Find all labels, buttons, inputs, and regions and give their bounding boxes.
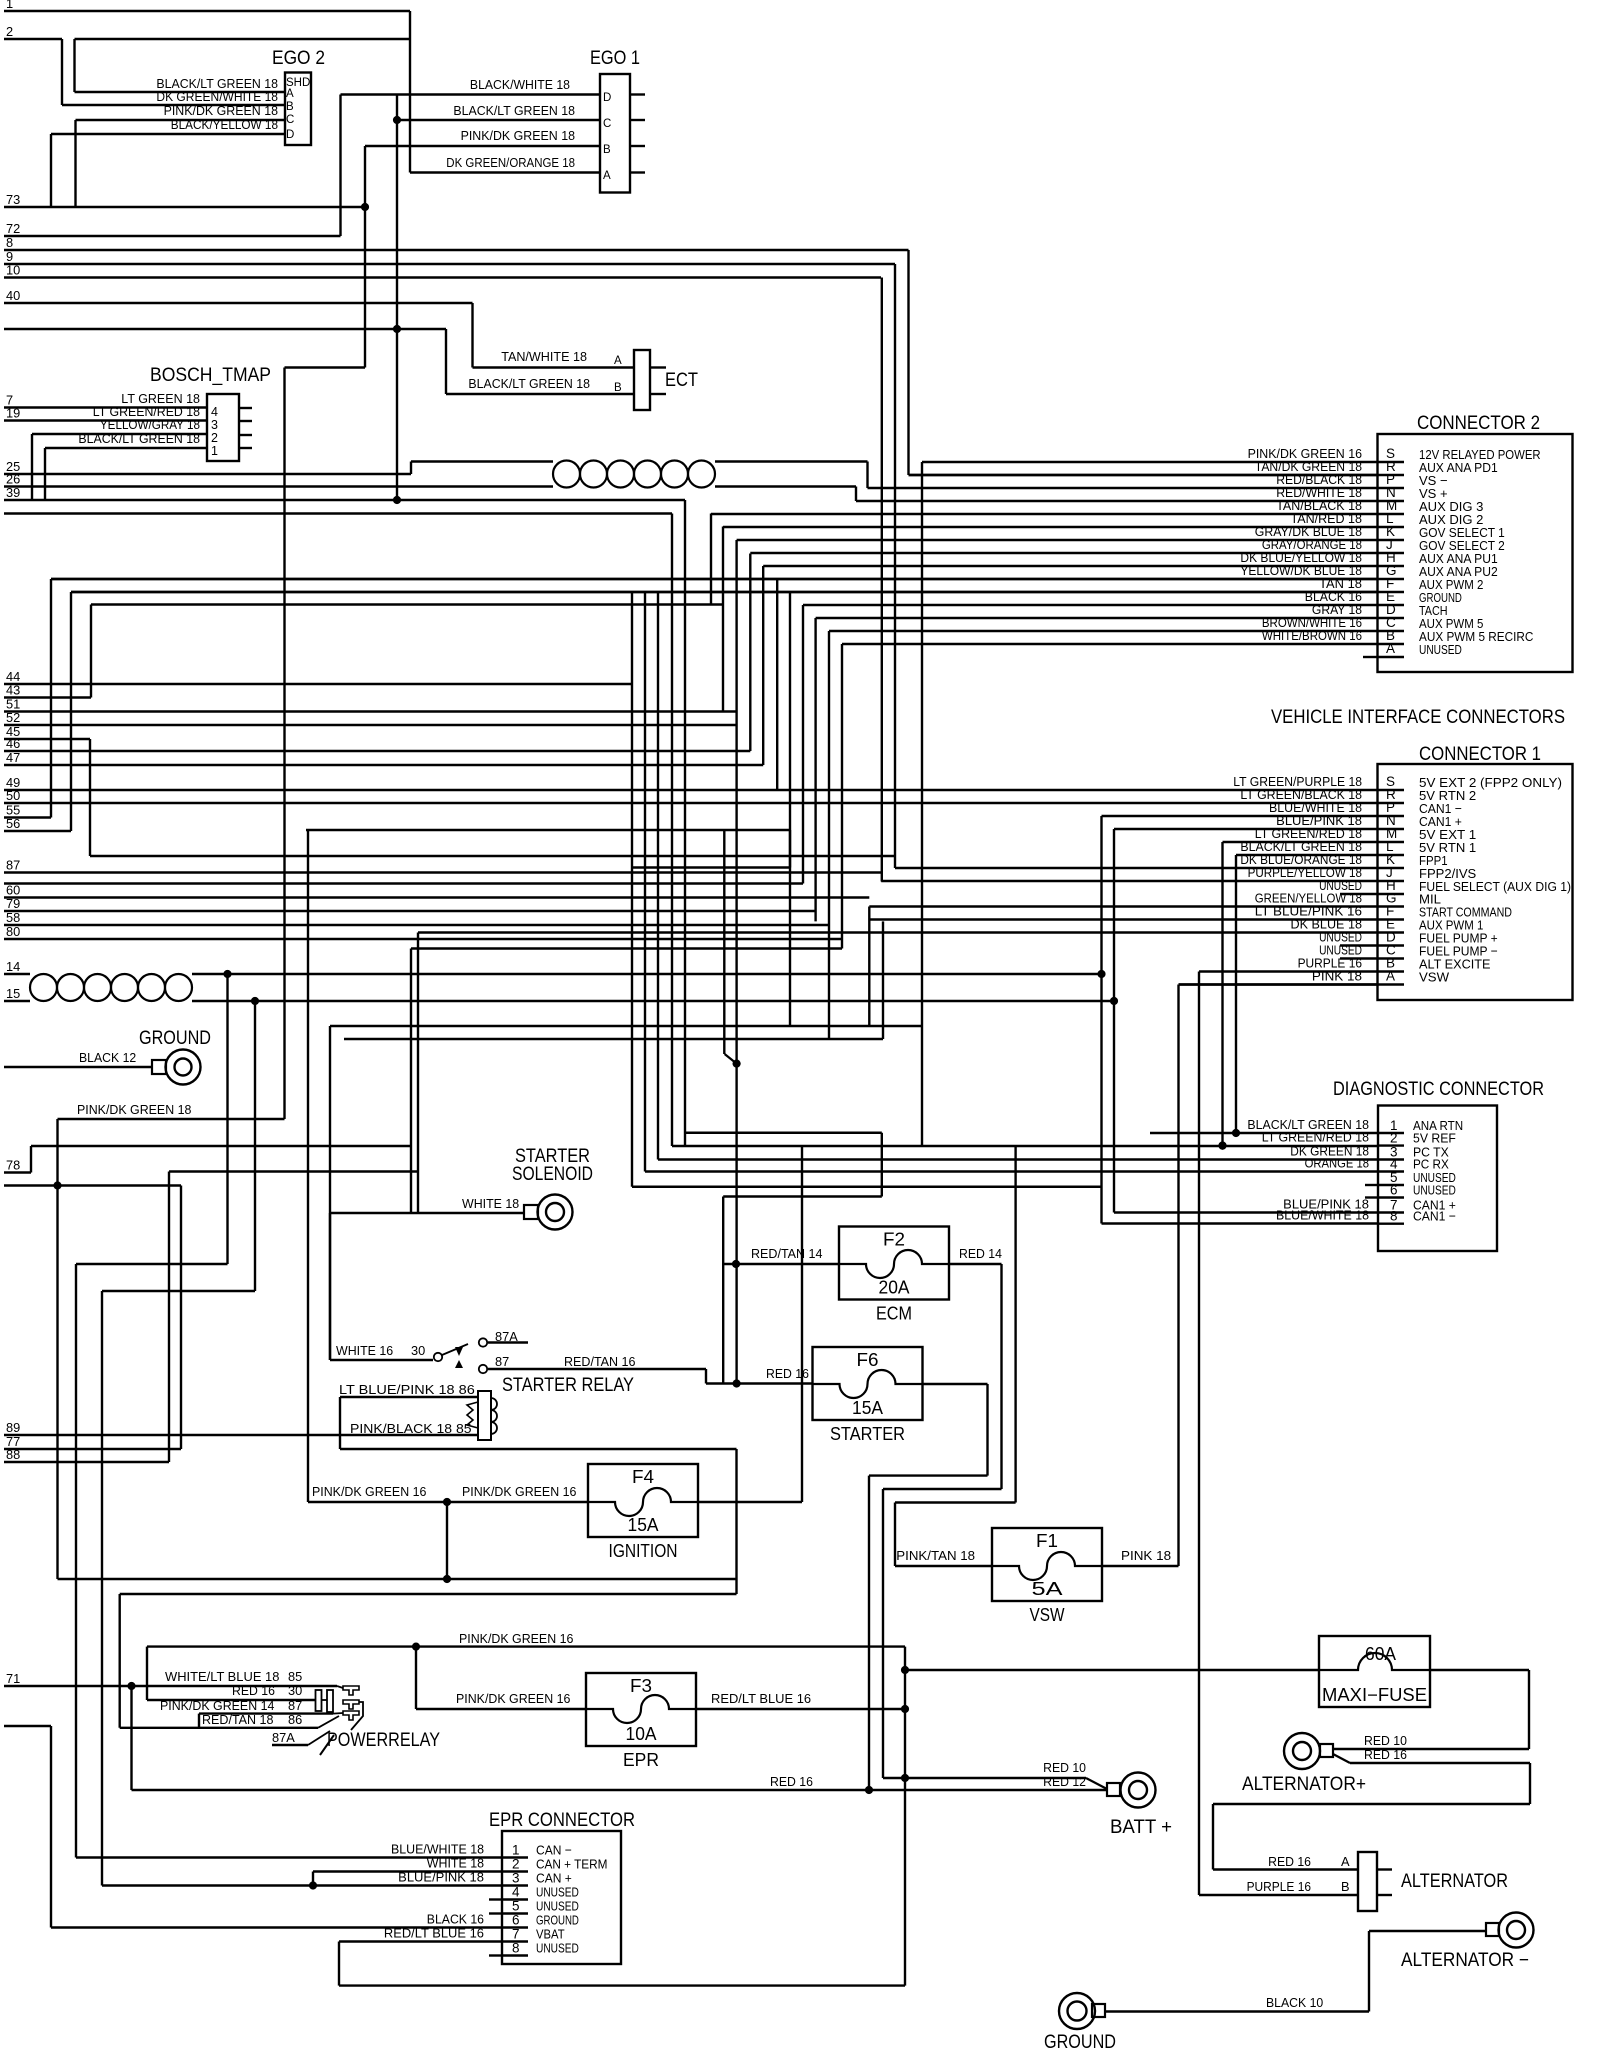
conn1 pin R slot <box>1378 802 1405 804</box>
wire WHITE riser x330 <box>329 1213 331 1360</box>
svg-text:87: 87 <box>6 858 20 873</box>
connector2 box <box>1378 434 1573 672</box>
wire 8 run to R <box>909 474 1378 476</box>
svg-text:UNUSED: UNUSED <box>536 1899 579 1914</box>
svg-text:5V REF: 5V REF <box>1413 1131 1456 1146</box>
net 2 wire <box>4 38 62 40</box>
wire RED16 jog y1475 <box>869 1474 988 1476</box>
conn1 pin F wire <box>869 918 1377 920</box>
svg-text:TAN/WHITE 18: TAN/WHITE 18 <box>501 349 587 364</box>
svg-text:2: 2 <box>211 431 218 445</box>
wire EGO1-C (BLACK/LT GREEN 18) <box>397 119 600 121</box>
conn2 pin L wire <box>723 526 1378 528</box>
svg-text:WHITE 18: WHITE 18 <box>462 1196 519 1211</box>
conn2 pin B slot <box>1378 643 1405 645</box>
svg-text:RED 16: RED 16 <box>1268 1854 1311 1869</box>
diag pin 5 stub <box>1365 1184 1378 1186</box>
conn1 pin S slot <box>1378 789 1405 791</box>
svg-text:LT GREEN/RED 18: LT GREEN/RED 18 <box>1262 1130 1369 1145</box>
net jog y1196.5 <box>723 1195 882 1197</box>
conn1 M riser x1222 (to diag 2) <box>1221 842 1223 1146</box>
svg-text:UNUSED: UNUSED <box>1419 642 1462 657</box>
svg-text:GROUND: GROUND <box>139 1028 211 1049</box>
pair1 riser 25 <box>410 462 412 475</box>
svg-text:FUEL SELECT (AUX DIG 1): FUEL SELECT (AUX DIG 1) <box>1419 879 1571 894</box>
svg-text:A: A <box>1386 641 1395 656</box>
svg-text:58: 58 <box>6 910 20 925</box>
svg-text:PINK/DK GREEN 16: PINK/DK GREEN 16 <box>462 1484 576 1499</box>
svg-text:IGNITION: IGNITION <box>609 1541 678 1561</box>
svg-text:8: 8 <box>512 1941 520 1956</box>
wire powerrelay 86 <box>120 1727 318 1729</box>
conn1 pin L slot <box>1378 854 1405 856</box>
conn1 pin G slot <box>1378 905 1405 907</box>
powerrelay contacts <box>316 1690 322 1711</box>
EGO1 stub right y146 <box>630 145 645 147</box>
svg-text:RED/LT BLUE 16: RED/LT BLUE 16 <box>711 1691 811 1706</box>
conn1 pin A wire <box>1179 983 1378 985</box>
net 9 wire <box>4 263 895 265</box>
svg-text:4: 4 <box>512 1885 520 1900</box>
wire RED16 drop x869 <box>868 1476 870 1790</box>
conn2 pin G slot <box>1378 578 1405 580</box>
epr pin 5 slot <box>502 1912 528 1914</box>
wire 87 jog x706 <box>705 1369 707 1384</box>
net 39 wire <box>4 499 685 501</box>
svg-text:15A: 15A <box>628 1515 659 1535</box>
net73 run y1119 <box>58 1118 285 1120</box>
svg-text:ALTERNATOR+: ALTERNATOR+ <box>1242 1774 1366 1795</box>
diag pin 4 slot <box>1378 1170 1404 1172</box>
wire RED16 jog y1804 <box>1213 1803 1530 1805</box>
net78 run y1146a <box>31 1145 411 1147</box>
junction F2 feed x736 <box>732 1260 740 1268</box>
junction y1646 x416 <box>412 1643 420 1651</box>
svg-text:79: 79 <box>6 896 20 911</box>
junction epr can+ <box>309 1881 317 1889</box>
net 52 wire <box>4 724 737 726</box>
TMAP stub right y435 <box>239 434 252 436</box>
svg-text:BLACK/LT GREEN 18: BLACK/LT GREEN 18 <box>468 376 590 391</box>
wire F1 feed jog y1502 <box>895 1501 1016 1503</box>
conn1 A riser x1178 (PINK to F1) <box>1177 985 1179 1567</box>
wire EGO1-D (BLACK/WHITE 18) <box>341 93 601 95</box>
conn2 S riser x922 <box>921 462 923 1146</box>
net x869 drop <box>868 907 870 1027</box>
junction y500 x397 <box>393 496 401 504</box>
svg-text:WHITE 16: WHITE 16 <box>336 1343 393 1358</box>
starter relay switch <box>434 1353 442 1361</box>
svg-text:PINK 18: PINK 18 <box>1312 969 1362 984</box>
wire 40 riser <box>471 303 473 368</box>
svg-text:BOSCH_TMAP: BOSCH_TMAP <box>150 365 271 386</box>
conn1 pin E wire <box>418 931 1378 933</box>
net80 riser x844 (conn2 B) <box>841 644 843 949</box>
fuse F4 box <box>588 1464 698 1537</box>
net 44 wire <box>4 683 632 685</box>
conn2 pin R wire <box>909 474 1378 476</box>
svg-text:LT BLUE/PINK 18 86: LT BLUE/PINK 18 86 <box>339 1382 475 1397</box>
conn2 pin C slot <box>1378 630 1405 632</box>
pair1 bottom drop x856 <box>855 487 857 502</box>
svg-text:PINK/DK GREEN 16: PINK/DK GREEN 16 <box>456 1691 570 1706</box>
wire F1 out <box>1102 1565 1179 1567</box>
twisted pair symbol top <box>553 461 580 488</box>
junction CAN+ pair <box>1110 997 1118 1005</box>
wire F3 feed <box>416 1708 586 1710</box>
svg-text:RED 16: RED 16 <box>232 1683 275 1698</box>
svg-text:F6: F6 <box>857 1350 879 1370</box>
conn2 pin P wire <box>868 487 1378 489</box>
svg-text:RED 14: RED 14 <box>959 1246 1002 1261</box>
CAN+ drop x102 <box>101 1291 103 1886</box>
net 1 wire <box>4 10 410 12</box>
CAN+ vertical x1114 <box>1113 829 1115 1213</box>
svg-text:VEHICLE INTERFACE CONNECTORS: VEHICLE INTERFACE CONNECTORS <box>1271 707 1565 728</box>
svg-text:2: 2 <box>6 24 13 39</box>
connector1 box <box>1378 764 1573 1000</box>
svg-text:PINK 18: PINK 18 <box>1121 1548 1171 1563</box>
svg-text:2: 2 <box>512 1857 520 1872</box>
wire WHITE 18 <box>330 1212 524 1214</box>
svg-text:BLACK/WHITE 18: BLACK/WHITE 18 <box>470 77 570 92</box>
conn2 pin S wire <box>922 461 1378 463</box>
net 51 wire <box>4 710 737 712</box>
epr connector box <box>502 1831 621 1964</box>
net60 to conn1 G <box>869 905 1377 907</box>
junction pair2 x255 <box>251 997 259 1005</box>
net y1646 run <box>147 1645 905 1647</box>
svg-text:CONNECTOR 1: CONNECTOR 1 <box>1419 744 1541 765</box>
svg-text:BLUE/WHITE 18: BLUE/WHITE 18 <box>1276 1208 1369 1223</box>
svg-text:PINK/DK GREEN 18: PINK/DK GREEN 18 <box>77 1102 191 1117</box>
epr pin 4 stub <box>489 1898 502 1900</box>
svg-text:A: A <box>1386 969 1395 984</box>
net 78 wire <box>4 1171 31 1173</box>
svg-text:ORANGE 18: ORANGE 18 <box>1305 1156 1369 1171</box>
svg-text:30: 30 <box>288 1683 302 1698</box>
conn1 pin B slot <box>1378 970 1405 972</box>
epr pin 8 slot <box>502 1954 528 1956</box>
net73 horiz y367 <box>285 366 366 368</box>
wire powerrelay 87 <box>199 1712 333 1714</box>
wire EGO1-B (PINK/DK GREEN 18) <box>365 145 600 147</box>
net 87 wire <box>4 871 881 873</box>
svg-text:72: 72 <box>6 221 20 236</box>
wire RED16 drop x1213 <box>1212 1804 1214 1870</box>
svg-text:8: 8 <box>1390 1209 1398 1224</box>
net 47 wire <box>4 764 763 766</box>
conn2 pin G wire <box>51 578 1378 580</box>
svg-text:20A: 20A <box>879 1278 910 1298</box>
conn2 M riser x711 <box>710 514 712 605</box>
conn1 pin M wire <box>1223 841 1378 843</box>
net y884 riser x804 (conn2 E) <box>802 605 804 884</box>
svg-text:EPR: EPR <box>623 1750 659 1770</box>
TMAP stub right y421 <box>239 420 252 422</box>
CAN- drop x76 <box>75 1264 77 1858</box>
alternator- lug <box>1499 1913 1534 1948</box>
net 73 wire <box>4 206 365 208</box>
svg-text:5A: 5A <box>1032 1579 1063 1599</box>
svg-text:26: 26 <box>6 472 20 487</box>
net y884 run <box>4 882 803 884</box>
wire alt- drop x1369 <box>1368 1931 1370 2012</box>
diag pin 6 stub <box>1365 1196 1378 1198</box>
wire TMAP-1 riser <box>44 448 46 500</box>
net51 descend x736 <box>735 540 737 1384</box>
ground lug bottom <box>1059 1993 1095 2029</box>
EGO1 stub right y120 <box>630 119 645 121</box>
net x119 drop <box>118 1594 120 1728</box>
conn2 pin D wire <box>816 617 1378 619</box>
riser x658 <box>657 593 659 1160</box>
svg-text:BLUE/PINK 18: BLUE/PINK 18 <box>398 1870 484 1885</box>
svg-text:PINK/DK GREEN 18: PINK/DK GREEN 18 <box>164 103 278 118</box>
svg-text:2: 2 <box>1390 1131 1398 1146</box>
junction x736 y1063 <box>733 1060 741 1068</box>
wire RED16 alt diag <box>1333 1754 1350 1763</box>
net BLACK/LTGREEN bus y329 <box>4 328 446 330</box>
conn1 pin P wire <box>1102 815 1378 817</box>
wire ECT-B riser <box>445 329 447 394</box>
net y1594 run <box>120 1593 737 1595</box>
wire 86 coil <box>340 1396 478 1398</box>
svg-text:89: 89 <box>6 1420 20 1435</box>
net 45 wire <box>4 738 90 740</box>
svg-text:POWERRELAY: POWERRELAY <box>327 1730 440 1751</box>
svg-text:3: 3 <box>512 1871 520 1886</box>
net 56 wire <box>4 830 71 832</box>
net 40 wire <box>4 302 473 304</box>
net x905 VBAT <box>904 1647 906 1986</box>
net 80 wire <box>4 938 842 940</box>
diagnostic connector box <box>1378 1106 1497 1252</box>
ground lug left <box>166 1050 201 1085</box>
net 77 wire <box>4 1448 181 1450</box>
svg-text:PINK/TAN 18: PINK/TAN 18 <box>896 1548 975 1563</box>
net BLACK/LTGREEN riser x397 <box>396 95 398 501</box>
fuse F3 box <box>586 1673 696 1746</box>
wire 2 to EGO2 B <box>62 104 285 106</box>
net88 riser x169 <box>168 1172 170 1463</box>
wire powerrelay 30 <box>147 1699 316 1701</box>
wire F4 out <box>698 1501 802 1503</box>
svg-text:BATT +: BATT + <box>1110 1817 1172 1838</box>
svg-text:87A: 87A <box>272 1730 295 1745</box>
connector TMAP box <box>207 394 239 461</box>
conn2 G riser x777 <box>776 579 778 791</box>
net x883 drop <box>882 921 884 1039</box>
svg-text:RED 16: RED 16 <box>770 1774 813 1789</box>
epr pin2 wire <box>313 1870 502 1872</box>
conn2 H riser x763 <box>762 566 764 765</box>
junction x905 y1670 <box>901 1666 909 1674</box>
junction x131 y1686 <box>127 1682 135 1690</box>
svg-text:BLACK/LT GREEN 18: BLACK/LT GREEN 18 <box>453 103 575 118</box>
diag pin 6 slot <box>1378 1196 1404 1198</box>
diag pin 7 slot <box>1378 1211 1404 1213</box>
wire EGO2-C riser <box>74 120 76 207</box>
svg-text:PINK/DK GREEN 16: PINK/DK GREEN 16 <box>312 1484 426 1499</box>
wire alt- run <box>1369 1930 1486 1932</box>
wire EGO2-C <box>76 119 286 121</box>
svg-text:60A: 60A <box>1365 1644 1396 1664</box>
svg-text:4: 4 <box>211 405 218 419</box>
svg-text:7: 7 <box>512 1927 520 1942</box>
svg-text:10A: 10A <box>626 1724 657 1744</box>
conn2 pin B wire <box>842 643 1378 645</box>
svg-text:F3: F3 <box>630 1676 652 1696</box>
svg-text:A: A <box>614 355 622 367</box>
conn2 pin N slot <box>1378 500 1405 502</box>
svg-text:CONNECTOR 2: CONNECTOR 2 <box>1417 413 1540 434</box>
TMAP stub right y448 <box>239 447 252 449</box>
connector ECT box <box>634 350 650 410</box>
wire 86 drop x340 <box>339 1397 341 1449</box>
conn1 A wire <box>1179 983 1378 985</box>
conn1 pin D slot <box>1378 944 1405 946</box>
wire TMAP-1 (BLACK/LT GREEN 18) <box>45 447 207 449</box>
svg-text:1: 1 <box>6 0 13 11</box>
conn1 pin C slot <box>1378 957 1405 959</box>
svg-text:RED 10: RED 10 <box>1364 1733 1407 1748</box>
svg-text:PINK/DK GREEN 18: PINK/DK GREEN 18 <box>461 128 575 143</box>
net45 run y856 <box>90 855 895 857</box>
alt B wire <box>1199 1894 1358 1896</box>
epr pin 8 stub <box>489 1954 502 1956</box>
wire F3 out <box>696 1708 905 1710</box>
svg-text:DK GREEN/ORANGE 18: DK GREEN/ORANGE 18 <box>446 155 575 170</box>
pair1 top drop x867 <box>866 462 868 489</box>
net 43 wire <box>4 696 91 698</box>
wire maxi drop x1529 <box>1528 1670 1530 1749</box>
conn2 pin C wire <box>829 630 1378 632</box>
svg-text:B: B <box>603 144 611 156</box>
CAN- jog y1264 <box>76 1263 228 1265</box>
conn1 pin H stub <box>1340 893 1378 895</box>
wire RED12 batt <box>132 1789 1108 1791</box>
svg-text:88: 88 <box>6 1447 20 1462</box>
wire to F6 <box>706 1382 813 1384</box>
svg-text:C: C <box>286 114 294 126</box>
junction y329 x397 <box>393 325 401 333</box>
epr pin2 drop x313 <box>312 1872 314 1886</box>
epr pin 7 slot <box>502 1940 528 1942</box>
svg-text:A: A <box>1341 1854 1350 1869</box>
net43 riser x91 <box>90 605 92 698</box>
svg-text:14: 14 <box>6 959 20 974</box>
pair2 top right <box>192 973 1102 975</box>
svg-text:WHITE/BROWN 16: WHITE/BROWN 16 <box>1262 628 1362 643</box>
pair1 top left <box>411 460 553 462</box>
junction x869 y1790 <box>865 1786 873 1794</box>
svg-text:GROUND: GROUND <box>536 1913 579 1928</box>
svg-text:EPR CONNECTOR: EPR CONNECTOR <box>489 1810 635 1831</box>
conn1 pin F slot <box>1378 918 1405 920</box>
net55 run y579 (conn2 G) <box>51 578 1378 580</box>
net y1026 run <box>330 1025 922 1027</box>
conn2 pin K slot <box>1378 539 1405 541</box>
conn2 pin E wire <box>803 604 1378 606</box>
wire F1 feed riser x895 <box>894 1503 896 1567</box>
conn1 L riser x1236 (to diag 1) <box>1235 855 1237 1133</box>
batt+ lug <box>1121 1773 1156 1808</box>
conn1 pin H slot <box>1378 893 1405 895</box>
net43 run y604 <box>91 603 723 605</box>
svg-text:ALTERNATOR: ALTERNATOR <box>1401 1871 1508 1892</box>
svg-text:CAN1 −: CAN1 − <box>1413 1209 1456 1224</box>
diag pin 3 slot <box>1378 1158 1404 1160</box>
wire 8 riser <box>907 250 909 475</box>
conn2 J riser x750 <box>749 554 751 752</box>
conn1 pin N wire <box>1114 828 1378 830</box>
net x131 drop (87A to batt) <box>130 1686 132 1790</box>
net x330 drop <box>329 1026 331 1360</box>
wire BLACK 10 <box>1105 2010 1369 2012</box>
conn2 pin E slot <box>1378 604 1405 606</box>
net72 riser x340 <box>339 95 341 237</box>
wire RED16 alt run <box>1350 1762 1530 1764</box>
wire maxi feed <box>905 1669 1319 1671</box>
diag pin7 wire <box>1114 1211 1378 1213</box>
wire RED14 drop x1001 <box>1000 1264 1002 1489</box>
svg-text:YELLOW/GRAY 18: YELLOW/GRAY 18 <box>100 417 200 432</box>
epr pin3 wire <box>102 1884 502 1886</box>
conn2 pin F wire <box>71 591 1378 593</box>
conn2 pin H slot <box>1378 565 1405 567</box>
wire F4 out riser x802 <box>801 1146 803 1502</box>
connector EGO1 box <box>600 74 630 193</box>
wire maxi out <box>1430 1669 1529 1671</box>
svg-text:56: 56 <box>6 816 20 831</box>
net79 riser x815 (conn2 D) <box>814 618 816 921</box>
starter solenoid lug <box>538 1195 573 1230</box>
svg-text:43: 43 <box>6 683 20 698</box>
maxi-fuse element <box>1319 1653 1430 1670</box>
net 14 wire <box>4 973 30 975</box>
svg-text:RED 10: RED 10 <box>1043 1760 1086 1775</box>
svg-text:BLACK/LT GREEN 18: BLACK/LT GREEN 18 <box>78 431 200 446</box>
conn1 pin L wire <box>1236 854 1378 856</box>
wire BLACK 12 <box>4 1066 152 1068</box>
svg-text:C: C <box>603 118 611 130</box>
net73 vertical x284 (TMAP area) <box>283 368 285 1120</box>
wire ECT-A (TAN/WHITE 18) <box>473 366 635 368</box>
net77 riser x181 <box>180 1186 182 1450</box>
diag pin8 wire <box>1102 1222 1379 1224</box>
net 10 wire <box>4 276 881 278</box>
svg-text:MAXI−FUSE: MAXI−FUSE <box>1322 1685 1427 1705</box>
svg-text:BLACK 10: BLACK 10 <box>1266 1995 1323 2010</box>
alt stub B <box>1377 1894 1392 1896</box>
CAN- drop x228 <box>226 974 228 1264</box>
svg-text:52: 52 <box>6 710 20 725</box>
svg-text:PURPLE 16: PURPLE 16 <box>1247 1879 1311 1894</box>
net 88 wire <box>4 1461 169 1463</box>
net 25 wire <box>4 473 411 475</box>
diag pin1 run y1133 <box>1150 1132 1378 1134</box>
fuse F1 box <box>992 1528 1102 1601</box>
svg-text:5: 5 <box>512 1899 520 1914</box>
svg-text:46: 46 <box>6 736 20 751</box>
conn1 pin K slot <box>1378 867 1405 869</box>
wire 2 riser <box>61 39 63 105</box>
conn2 pin K wire <box>737 539 1378 541</box>
wire ECT-B (BLACK/LT GREEN 18) <box>446 393 634 395</box>
powerrelay slash <box>320 1735 334 1755</box>
pair1 bottom right <box>715 485 856 487</box>
